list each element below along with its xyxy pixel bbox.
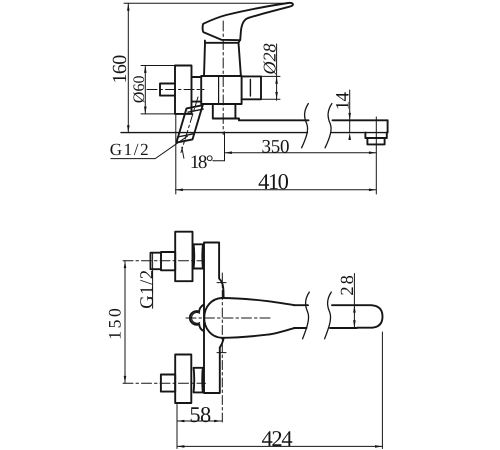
410 left extension line <box>175 115 177 194</box>
dome axis cross dashes (plan) <box>217 283 228 353</box>
phi28 extension lines <box>261 76 280 99</box>
inlet nipple (side view) <box>160 84 175 96</box>
tube top chamfer line <box>188 109 203 112</box>
28 arrows <box>353 305 356 312</box>
svg-text:350: 350 <box>261 136 289 157</box>
G1/2 extension line (vertical) <box>152 253 154 308</box>
phi28 dim line <box>276 44 278 100</box>
phi60 extension lines <box>141 66 176 114</box>
body front face line (side view) <box>218 76 220 103</box>
160 dim line <box>127 3 129 132</box>
58 arrows <box>177 420 184 423</box>
break symbol S2 (plan) <box>325 292 332 339</box>
nose inner arc <box>192 313 200 324</box>
upper hex nut (plan) <box>161 252 175 270</box>
upper eccentric flange (plan) <box>175 232 192 282</box>
vertical body centerline <box>222 21 224 135</box>
upper inlet nipple (plan) <box>151 253 162 270</box>
spout pipe end cap <box>387 120 389 132</box>
svg-text:G1/2: G1/2 <box>137 269 157 308</box>
14 arrows (outside) <box>348 113 351 120</box>
outlet connector right of body (side view) <box>242 76 261 99</box>
18 deg tick left <box>182 147 184 158</box>
cartridge dome (side view) <box>204 41 241 76</box>
410 dim line <box>176 189 377 191</box>
G1/2 underline and leader <box>111 136 188 158</box>
arrows, top view <box>127 3 376 191</box>
spout pipe top edge (right of break) <box>333 119 388 121</box>
upper centerline <box>123 260 204 262</box>
outlet groove line <box>249 80 251 97</box>
svg-text:Ø28: Ø28 <box>260 44 280 76</box>
150 arrows <box>124 261 127 268</box>
lower eccentric flange (plan) <box>175 355 191 404</box>
lever taper upper outline (plan view) <box>222 298 295 305</box>
wall flange / escutcheon (side view) <box>175 66 192 114</box>
aerator axis line down to dims <box>375 117 377 194</box>
svg-text:G1/2: G1/2 <box>110 140 150 159</box>
tube bottom nut line <box>178 134 194 137</box>
350 dim line <box>225 152 377 154</box>
handle lever (side view) <box>203 3 293 40</box>
14 dim line <box>349 90 351 133</box>
phi28 arrows <box>275 76 278 83</box>
handle dome circle (plan view, left arc) <box>204 298 221 338</box>
350 left extension line <box>224 132 226 161</box>
svg-text:150: 150 <box>105 306 125 340</box>
body slab (plan view) <box>204 243 224 394</box>
424 dim line <box>177 445 382 447</box>
break symbol S1 (plan) <box>303 292 310 339</box>
18 deg tick right <box>213 160 225 162</box>
svg-text:28: 28 <box>338 273 358 296</box>
424 arrows <box>177 445 184 448</box>
lower connector (plan) <box>194 368 203 393</box>
58 left extension <box>176 405 178 425</box>
aerator ring <box>365 133 386 138</box>
lower hex nut (plan) <box>161 375 175 392</box>
phi60 dim line <box>144 66 146 114</box>
break symbol S1 (top view) <box>302 104 309 148</box>
lower spout block (side view) <box>213 104 239 120</box>
svg-text:18°: 18° <box>190 152 213 173</box>
lever taper lower outline (plan view) <box>222 328 295 338</box>
phi60 arrows <box>144 66 147 73</box>
150 dim line <box>124 261 126 384</box>
handle centerline (plan) <box>186 317 273 319</box>
handle knob (plan view) <box>357 305 383 328</box>
inlet centerline <box>147 89 204 91</box>
flange-to-body connector (side view) <box>192 77 202 102</box>
svg-text:424: 424 <box>261 426 292 450</box>
main body block (side view) <box>201 76 241 104</box>
boss front-face dash line (plan view) <box>221 273 223 423</box>
spout pipe bottom edge / long extension line to 160 dim <box>121 132 388 134</box>
424 right extension <box>381 332 383 449</box>
svg-text:14: 14 <box>332 92 353 111</box>
handle grip edges (plan view) <box>294 305 357 328</box>
svg-text:Ø60: Ø60 <box>131 76 148 104</box>
handle dome nose tip (plan view) <box>190 305 204 332</box>
shower hose outlet tube (diagonal, 18 deg) <box>176 105 202 142</box>
28 dim line <box>353 274 355 328</box>
svg-text:410: 410 <box>258 169 289 194</box>
tube axis centerline <box>181 97 198 153</box>
58 dim line <box>177 420 222 422</box>
160 top extension line <box>124 2 288 4</box>
350 arrows <box>225 151 232 154</box>
lower centerline <box>123 382 206 384</box>
break symbol S2 (top view) <box>325 104 332 148</box>
svg-text:58: 58 <box>189 402 211 427</box>
aerator body <box>367 138 384 144</box>
spout pipe top edge (left of break) <box>239 119 309 121</box>
424 left extension <box>176 424 178 449</box>
410 arrows <box>176 189 183 192</box>
160 arrows <box>127 3 130 10</box>
upper connector (plan) <box>194 244 203 268</box>
arrows, bottom view <box>124 261 383 448</box>
svg-text:160: 160 <box>109 55 131 84</box>
